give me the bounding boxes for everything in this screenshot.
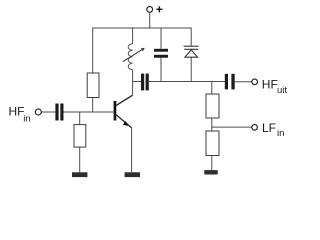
svg-text:in: in: [23, 114, 30, 125]
svg-text:LF: LF: [262, 121, 276, 135]
svg-text:in: in: [277, 128, 284, 139]
svg-text:uit: uit: [277, 85, 287, 96]
svg-text:HF: HF: [9, 105, 25, 119]
svg-text:HF: HF: [262, 77, 278, 91]
